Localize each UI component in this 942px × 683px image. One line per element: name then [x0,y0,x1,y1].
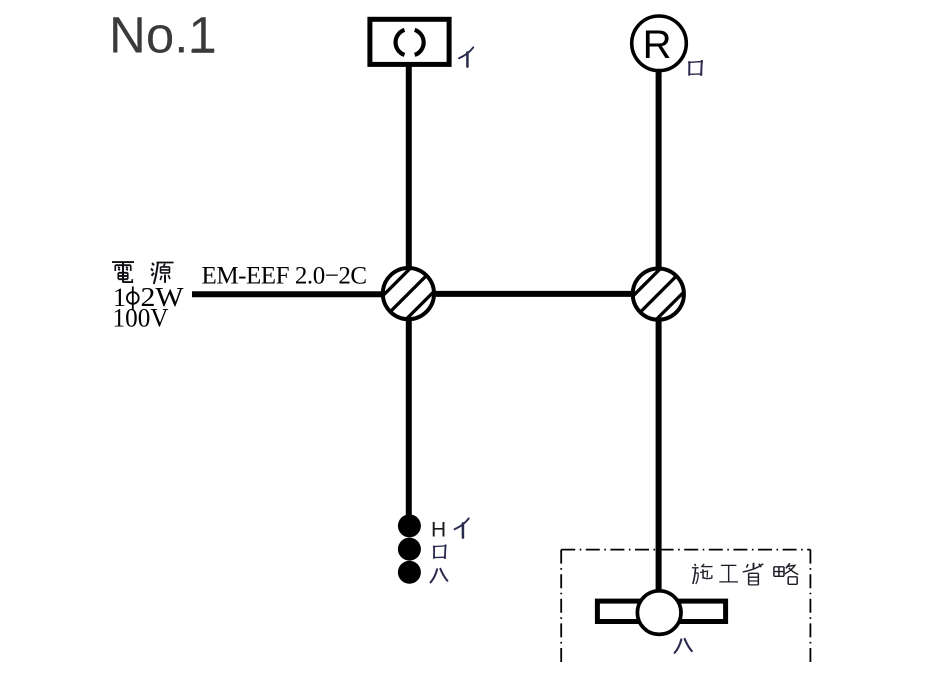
switch ロ [398,538,421,561]
title No.1 [109,7,217,64]
svg-text:No.1: No.1 [109,7,217,64]
label ハ (switch) [431,569,448,583]
lamp receptacle R ロ [632,16,687,71]
kanji 省 [743,563,764,585]
svg-text:H: H [431,518,446,541]
phi symbol [127,287,139,311]
wire: ceiling rosette イ down to junction box J1 [406,64,412,268]
switch イ (位置表示灯内蔵スイッチ H) [398,514,421,537]
kanji 源 [151,263,174,284]
text 施工省略 [692,563,798,585]
svg-text:100V: 100V [113,304,169,333]
wire: lamp receptacle ロ down to junction box J2 [656,70,662,268]
kanji 施 [692,564,713,584]
switch ハ [398,561,421,584]
junction box J2 (VVF用ジョイントボックス) [619,254,698,333]
kanji 工 [719,565,738,581]
label ロ (switch) [433,545,445,558]
fluorescent luminaire ハ [597,591,725,635]
kanji 略 [774,563,798,584]
svg-text:R: R [643,23,672,67]
power source label 電源 1φ2W 100V [112,262,184,332]
construction-omitted boundary 施工省略区画 (chain line) [561,550,810,663]
label ハ (fluorescent) [675,639,692,653]
label イ (rosette) [459,47,473,66]
junction box J1 (VVF用ジョイントボックス) [369,254,448,333]
wire: junction box J1 to junction box J2 [434,291,633,297]
wire: junction box J2 down to fluorescent light ハ [656,319,662,591]
ceiling rosette 角型引掛シーリング イ [370,19,449,64]
svg-text:EM-EEF 2.0−2C: EM-EEF 2.0−2C [202,263,367,290]
label イ (switch) [455,518,469,537]
wire: junction box J1 down to switches [406,319,412,517]
kanji 電 [112,262,134,283]
label ロ (receptacle) [689,61,703,75]
wire: power source to junction box J1 [192,291,384,297]
